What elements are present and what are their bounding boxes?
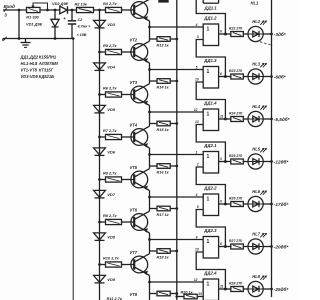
input wire to ДД2.3 xyxy=(150,239,204,241)
inverter ДД1.1 (cut at top) xyxy=(202,0,204,3)
svg-text:13: 13 xyxy=(195,120,199,124)
svg-text:HL8: HL8 xyxy=(252,274,260,279)
svg-text:VD1 Д9Е: VD1 Д9Е xyxy=(26,22,43,27)
svg-text:ДД1,ДД2: ДД1,ДД2 xyxy=(20,54,39,59)
svg-text:-6дб*: -6дб* xyxy=(274,73,286,79)
resistor R25 270 xyxy=(231,159,244,164)
lower input wire DD2.4 xyxy=(202,296,204,298)
trimmer R1 330 xyxy=(27,7,41,12)
transistor VT3 xyxy=(131,86,148,103)
svg-text:5: 5 xyxy=(196,66,198,70)
transistor VT1 xyxy=(131,2,148,19)
wire and resistor R19 1к xyxy=(150,293,158,295)
row wire to R9 xyxy=(100,221,106,223)
svg-text:R10 2,7к: R10 2,7к xyxy=(103,255,120,260)
svg-text:ДД2.3: ДД2.3 xyxy=(203,228,217,233)
diode chain vertical wire xyxy=(99,10,101,300)
svg-text:4: 4 xyxy=(195,23,198,27)
transistor VT5 xyxy=(131,171,148,188)
resistor R8 2,7к xyxy=(106,177,122,182)
svg-text:R20 1к: R20 1к xyxy=(181,291,194,295)
input wire to ДД2.1 xyxy=(150,154,204,156)
svg-text:ДД1.2: ДД1.2 xyxy=(203,15,217,20)
inverter ДД2.1 xyxy=(203,152,218,174)
emitter vertical VT5 xyxy=(149,191,151,209)
svg-text:1: 1 xyxy=(207,154,210,160)
row wire to R5 xyxy=(100,51,106,53)
vertical wire input left branch xyxy=(18,10,20,39)
svg-text:HL6: HL6 xyxy=(252,189,260,194)
svg-text:13: 13 xyxy=(198,292,202,296)
svg-text:1: 1 xyxy=(207,239,210,245)
svg-text:HL3: HL3 xyxy=(252,61,260,66)
svg-text:VT3: VT3 xyxy=(130,80,138,85)
wire R8 to VT5 base xyxy=(122,179,135,181)
svg-text:12: 12 xyxy=(194,278,198,282)
wire HL4 to bus xyxy=(263,118,271,120)
svg-text:1: 1 xyxy=(196,151,198,155)
svg-text:R24 270: R24 270 xyxy=(229,112,242,116)
feedback loop ДД2.1 xyxy=(196,167,225,204)
row 8 wire stub xyxy=(99,299,101,300)
output wire ДД1.2 xyxy=(219,33,231,35)
svg-text:× 15В: × 15В xyxy=(77,33,87,37)
svg-text:R2 13к: R2 13к xyxy=(75,2,88,7)
wire HL6 to bus xyxy=(263,203,271,205)
bus middle vertical xyxy=(176,0,178,300)
svg-text:-12дб*: -12дб* xyxy=(274,158,289,164)
wire and resistor R16 1к xyxy=(150,165,158,167)
inverter ДД1.2 xyxy=(203,24,218,46)
svg-text:VD5: VD5 xyxy=(107,107,116,112)
common wire pin 6 xyxy=(3,38,73,40)
svg-text:9: 9 xyxy=(196,236,198,240)
wire HL8 to bus xyxy=(263,288,271,290)
LED HL6 xyxy=(243,203,248,205)
svg-text:8: 8 xyxy=(220,242,222,246)
svg-text:R27 270: R27 270 xyxy=(229,239,242,243)
resistor R9 2,7к xyxy=(106,219,122,224)
svg-text:К155ЛН1: К155ЛН1 xyxy=(39,54,57,59)
wire R5 to VT2 base xyxy=(122,51,135,53)
inverter ДД2.2 xyxy=(203,194,218,216)
cut resistor R12 at top edge xyxy=(158,0,168,3)
svg-text:VD3-VD9: VD3-VD9 xyxy=(21,74,39,79)
resistor R26 270 xyxy=(231,202,244,207)
LED HL2 xyxy=(243,33,248,35)
wire and resistor R15 1к xyxy=(150,123,158,125)
svg-text:-3дб*: -3дб* xyxy=(274,31,286,37)
wire R7 to VT4 base xyxy=(122,136,135,138)
svg-text:АЛ307БМ: АЛ307БМ xyxy=(38,61,59,66)
svg-text:VD9: VD9 xyxy=(107,277,116,282)
svg-text:R25 270: R25 270 xyxy=(229,154,242,158)
diode VD6 xyxy=(94,148,106,155)
input wire to ДД2.4 xyxy=(150,281,204,283)
diode VD5 xyxy=(94,105,106,112)
svg-text:ДД1.1: ДД1.1 xyxy=(204,6,218,11)
ground xyxy=(25,39,27,43)
wire and resistor R17 1к xyxy=(150,208,158,210)
diode VD7 xyxy=(94,190,106,197)
svg-text:R17 1к: R17 1к xyxy=(157,213,170,217)
wire and resistor R18 1к xyxy=(150,250,158,252)
resistor R23 270 xyxy=(231,74,244,79)
svg-text:VD8: VD8 xyxy=(107,234,116,239)
svg-text:R13 1к: R13 1к xyxy=(157,44,170,48)
transistor VT6 xyxy=(131,214,148,231)
svg-text:R5 2,7к: R5 2,7к xyxy=(103,43,117,48)
row wire to R7 xyxy=(100,136,106,138)
svg-text:10: 10 xyxy=(195,248,199,252)
wire R2 to chain xyxy=(94,9,106,11)
svg-text:HL5: HL5 xyxy=(252,146,260,151)
svg-text:4: 4 xyxy=(195,193,198,197)
svg-text:4,7мк ×: 4,7мк × xyxy=(77,25,92,29)
resistor R27 270 xyxy=(231,244,244,249)
svg-text:1: 1 xyxy=(207,111,210,117)
svg-text:HL1: HL1 xyxy=(251,1,259,6)
wire input top xyxy=(9,9,27,11)
svg-text:R8 2,7к: R8 2,7к xyxy=(103,170,117,175)
svg-text:HL1-HL8: HL1-HL8 xyxy=(21,61,39,66)
svg-text:11: 11 xyxy=(220,284,224,288)
wire HL7 to bus xyxy=(263,246,271,248)
svg-text:3: 3 xyxy=(220,157,222,161)
svg-text:Вход: Вход xyxy=(4,4,16,9)
svg-text:ДД1.4: ДД1.4 xyxy=(203,100,217,105)
emitter vertical VT1 xyxy=(149,21,151,39)
svg-text:ДД1.3: ДД1.3 xyxy=(203,58,217,63)
wire HL3 to bus xyxy=(263,76,271,78)
diode VD8 xyxy=(94,233,106,240)
diode VD9 xyxy=(94,275,106,282)
input wire to ДД1.4 xyxy=(150,111,204,113)
emitter vertical VT6 xyxy=(149,233,151,251)
wire and resistor R13 1к xyxy=(150,38,158,40)
LED HL4 xyxy=(243,118,248,120)
row wire to R10 xyxy=(100,264,106,266)
svg-text:-5,5дб*: -5,5дб* xyxy=(274,116,290,122)
LED HL5 xyxy=(243,161,248,163)
svg-text:10: 10 xyxy=(195,78,199,82)
svg-text:R6 2,7к: R6 2,7к xyxy=(103,85,117,90)
input wire to ДД2.2 xyxy=(150,196,204,198)
svg-text:VT4: VT4 xyxy=(130,122,138,127)
feedback loop ДД1.4 xyxy=(196,125,225,162)
svg-text:VD6: VD6 xyxy=(107,149,116,154)
emitter vertical VT4 xyxy=(149,148,151,166)
LED HL7 xyxy=(243,246,248,248)
output wire ДД1.3 xyxy=(219,76,231,78)
svg-text:R4 2,7к: R4 2,7к xyxy=(103,1,117,6)
resistor R5 2,7к xyxy=(106,49,122,54)
transistor VT7 xyxy=(131,256,148,273)
svg-text:R1 330: R1 330 xyxy=(26,14,39,19)
svg-text:12: 12 xyxy=(194,108,198,112)
svg-text:VD3: VD3 xyxy=(107,22,116,27)
resistor R20 1к (to DD2.4 input) xyxy=(177,296,184,298)
row wire to R8 xyxy=(100,179,106,181)
svg-text:VT2: VT2 xyxy=(130,37,138,42)
dashed mark near HL2 xyxy=(260,42,273,46)
output wire ДД2.1 xyxy=(219,161,231,163)
svg-text:R23 270: R23 270 xyxy=(229,69,242,73)
svg-text:6: 6 xyxy=(220,199,222,203)
svg-text:6: 6 xyxy=(220,29,222,33)
resistor R10 2,7к xyxy=(106,262,122,267)
svg-text:R18 1к: R18 1к xyxy=(157,256,170,260)
feedback loop ДД1.3 xyxy=(196,82,225,119)
svg-text:1: 1 xyxy=(207,281,210,287)
svg-text:3: 3 xyxy=(4,13,7,18)
svg-text:ДД2.2: ДД2.2 xyxy=(203,185,217,190)
collector stub VT8 (cut) xyxy=(149,294,151,300)
svg-text:R16 1к: R16 1к xyxy=(157,171,170,175)
resistor R24 270 xyxy=(231,117,244,122)
wire HL5 to bus xyxy=(263,161,271,163)
svg-text:КД521Б: КД521Б xyxy=(39,74,54,79)
inverter ДД1.4 xyxy=(203,109,218,131)
transistor VT2 xyxy=(131,44,148,61)
svg-text:VT8: VT8 xyxy=(130,292,138,297)
svg-text:11: 11 xyxy=(220,114,224,118)
svg-text:VT5: VT5 xyxy=(130,165,138,170)
svg-text:R11 2,7к: R11 2,7к xyxy=(107,296,123,300)
resistor R4 2,7к xyxy=(106,7,122,12)
output wire ДД2.4 xyxy=(219,288,231,290)
svg-text:5: 5 xyxy=(197,205,199,209)
resistor R28 270 xyxy=(231,287,244,292)
svg-text:-17дб*: -17дб* xyxy=(274,201,289,207)
svg-text:R28 270: R28 270 xyxy=(229,282,242,286)
svg-text:HL7: HL7 xyxy=(252,231,260,236)
svg-text:R22 270: R22 270 xyxy=(229,27,242,31)
svg-text:6: 6 xyxy=(2,37,5,42)
inverter ДД2.4 xyxy=(203,279,218,300)
emitter vertical VT7 xyxy=(149,276,151,294)
wire R10 to VT7 base xyxy=(122,264,135,266)
svg-text:R15 1к: R15 1к xyxy=(157,128,170,132)
output wire ДД2.3 xyxy=(219,246,231,248)
wire R9 to VT6 base xyxy=(122,221,135,223)
svg-text:HL2: HL2 xyxy=(252,19,260,24)
svg-text:+: + xyxy=(63,16,66,21)
feedback loop ДД1.2 xyxy=(196,40,225,77)
emitter vertical VT3 xyxy=(149,106,151,124)
LED HL3 xyxy=(243,76,248,78)
svg-text:3: 3 xyxy=(197,35,199,39)
svg-text:2: 2 xyxy=(196,163,199,167)
resistor R6 2,7к xyxy=(106,92,122,97)
feedback loop ДД2.2 xyxy=(196,210,225,247)
transistor VT4 xyxy=(131,129,148,146)
svg-text:8: 8 xyxy=(220,72,222,76)
wire R6 to VT3 base xyxy=(122,94,135,96)
svg-text:КТ315Г: КТ315Г xyxy=(39,68,54,73)
svg-text:1: 1 xyxy=(207,196,210,202)
wire and resistor R14 1к xyxy=(150,80,158,82)
wire R4 to VT1 base xyxy=(122,9,135,11)
input wire to ДД1.3 xyxy=(150,69,204,71)
resistor R22 270 xyxy=(231,32,244,37)
wire HL2 to bus xyxy=(263,33,271,35)
svg-text:-25дб*: -25дб* xyxy=(274,286,289,292)
svg-text:1: 1 xyxy=(207,26,210,32)
row wire to R6 xyxy=(100,94,106,96)
svg-text:VT6: VT6 xyxy=(130,207,138,212)
capacitor C2 4,7мк 15В xyxy=(71,10,73,20)
svg-text:R9 2,7к: R9 2,7к xyxy=(103,213,117,218)
resistor R7 2,7к xyxy=(106,134,122,139)
svg-text:R7 2,7к: R7 2,7к xyxy=(103,128,117,133)
svg-text:VD2 Д9Е: VD2 Д9Е xyxy=(52,1,69,6)
input wire to ДД1.2 xyxy=(150,26,204,28)
ground bus vertical xyxy=(72,39,74,300)
diode VD2 Д9Е xyxy=(60,6,67,14)
diode VD4 xyxy=(94,63,106,70)
output wire ДД2.2 xyxy=(219,203,231,205)
svg-text:С2: С2 xyxy=(78,18,84,22)
svg-text:VT1-VT8: VT1-VT8 xyxy=(21,68,38,73)
svg-text:ДД2.1: ДД2.1 xyxy=(203,143,217,148)
svg-text:VD4: VD4 xyxy=(107,64,116,69)
feedback loop ДД2.3 xyxy=(196,252,225,289)
resistor R2 13к xyxy=(77,7,94,12)
svg-text:R26 270: R26 270 xyxy=(229,197,242,201)
svg-text:R14 1к: R14 1к xyxy=(157,86,170,90)
svg-text:VT7: VT7 xyxy=(130,250,138,255)
svg-text:ДД2.4: ДД2.4 xyxy=(203,270,217,275)
svg-text:1: 1 xyxy=(207,69,210,75)
bus right vertical xyxy=(271,0,273,297)
inverter ДД2.3 xyxy=(203,237,218,259)
wire VD2 to R2 xyxy=(68,9,77,11)
svg-text:-20дб*: -20дб* xyxy=(274,243,289,249)
diode VD1 Д9Е xyxy=(54,10,56,19)
diode VD3 xyxy=(94,20,106,27)
inverter ДД1.3 xyxy=(203,67,218,89)
wire R1 to VD2 xyxy=(40,9,60,11)
svg-text:VD7: VD7 xyxy=(107,192,116,197)
svg-text:HL4: HL4 xyxy=(252,104,260,109)
emitter vertical VT2 xyxy=(149,63,151,81)
feedback loop DD1.1 xyxy=(196,0,225,34)
LED HL8 xyxy=(243,288,248,290)
output wire ДД1.4 xyxy=(219,118,231,120)
